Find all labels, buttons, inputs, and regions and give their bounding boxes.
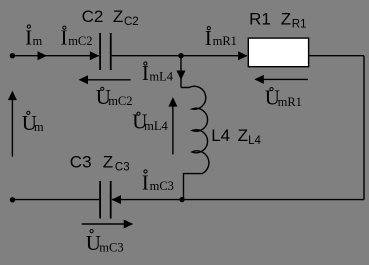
svg-text:C2: C2 xyxy=(124,16,139,28)
svg-text:mC2: mC2 xyxy=(108,94,132,108)
svg-text:mC2: mC2 xyxy=(68,34,92,48)
svg-text:I: I xyxy=(142,61,149,85)
svg-text:R1: R1 xyxy=(249,9,271,28)
svg-text:I: I xyxy=(25,25,32,49)
svg-text:Z: Z xyxy=(281,9,291,28)
svg-text:mC3: mC3 xyxy=(150,179,174,193)
svg-text:m: m xyxy=(33,34,43,48)
svg-text:C2: C2 xyxy=(82,7,104,26)
svg-text:C3: C3 xyxy=(70,152,92,171)
svg-text:m: m xyxy=(34,120,44,134)
svg-text:mL4: mL4 xyxy=(144,119,168,133)
svg-text:L4: L4 xyxy=(248,135,261,147)
svg-text:Z: Z xyxy=(238,126,248,145)
svg-text:mR1: mR1 xyxy=(278,95,302,109)
svg-text:I: I xyxy=(142,170,149,194)
svg-text:C3: C3 xyxy=(115,161,130,173)
svg-text:mL4: mL4 xyxy=(149,70,173,84)
svg-text:mR1: mR1 xyxy=(213,34,237,48)
svg-text:R1: R1 xyxy=(292,18,307,30)
svg-text:Z: Z xyxy=(103,152,113,171)
svg-text:Z: Z xyxy=(113,7,123,26)
svg-text:L4: L4 xyxy=(211,126,230,145)
svg-text:mC3: mC3 xyxy=(99,241,123,255)
